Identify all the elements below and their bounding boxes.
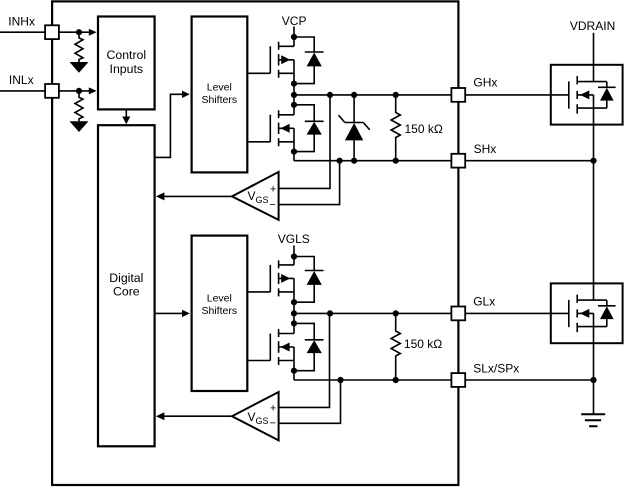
svg-text:INHx: INHx bbox=[8, 15, 35, 29]
svg-text:GHx: GHx bbox=[473, 75, 497, 89]
svg-text:Level: Level bbox=[207, 292, 232, 304]
svg-text:VDRAIN: VDRAIN bbox=[570, 19, 615, 33]
svg-text:−: − bbox=[269, 199, 275, 211]
svg-text:SLx/SPx: SLx/SPx bbox=[473, 362, 519, 376]
svg-text:Shifters: Shifters bbox=[201, 305, 237, 317]
svg-text:+: + bbox=[270, 402, 276, 414]
svg-text:Core: Core bbox=[113, 285, 140, 299]
svg-text:GLx: GLx bbox=[473, 295, 495, 309]
svg-text:Level: Level bbox=[207, 82, 232, 94]
svg-text:INLx: INLx bbox=[9, 73, 34, 87]
svg-text:−: − bbox=[269, 417, 275, 429]
svg-text:+: + bbox=[270, 183, 276, 195]
svg-text:Control: Control bbox=[106, 48, 146, 62]
svg-text:Shifters: Shifters bbox=[201, 94, 237, 106]
svg-text:VCP: VCP bbox=[282, 14, 307, 28]
svg-text:VGLS: VGLS bbox=[278, 232, 310, 246]
svg-text:150 kΩ: 150 kΩ bbox=[405, 122, 443, 136]
svg-text:150 kΩ: 150 kΩ bbox=[404, 337, 442, 351]
svg-text:Digital: Digital bbox=[109, 271, 143, 285]
svg-text:SHx: SHx bbox=[474, 142, 497, 156]
svg-text:Inputs: Inputs bbox=[110, 62, 144, 76]
